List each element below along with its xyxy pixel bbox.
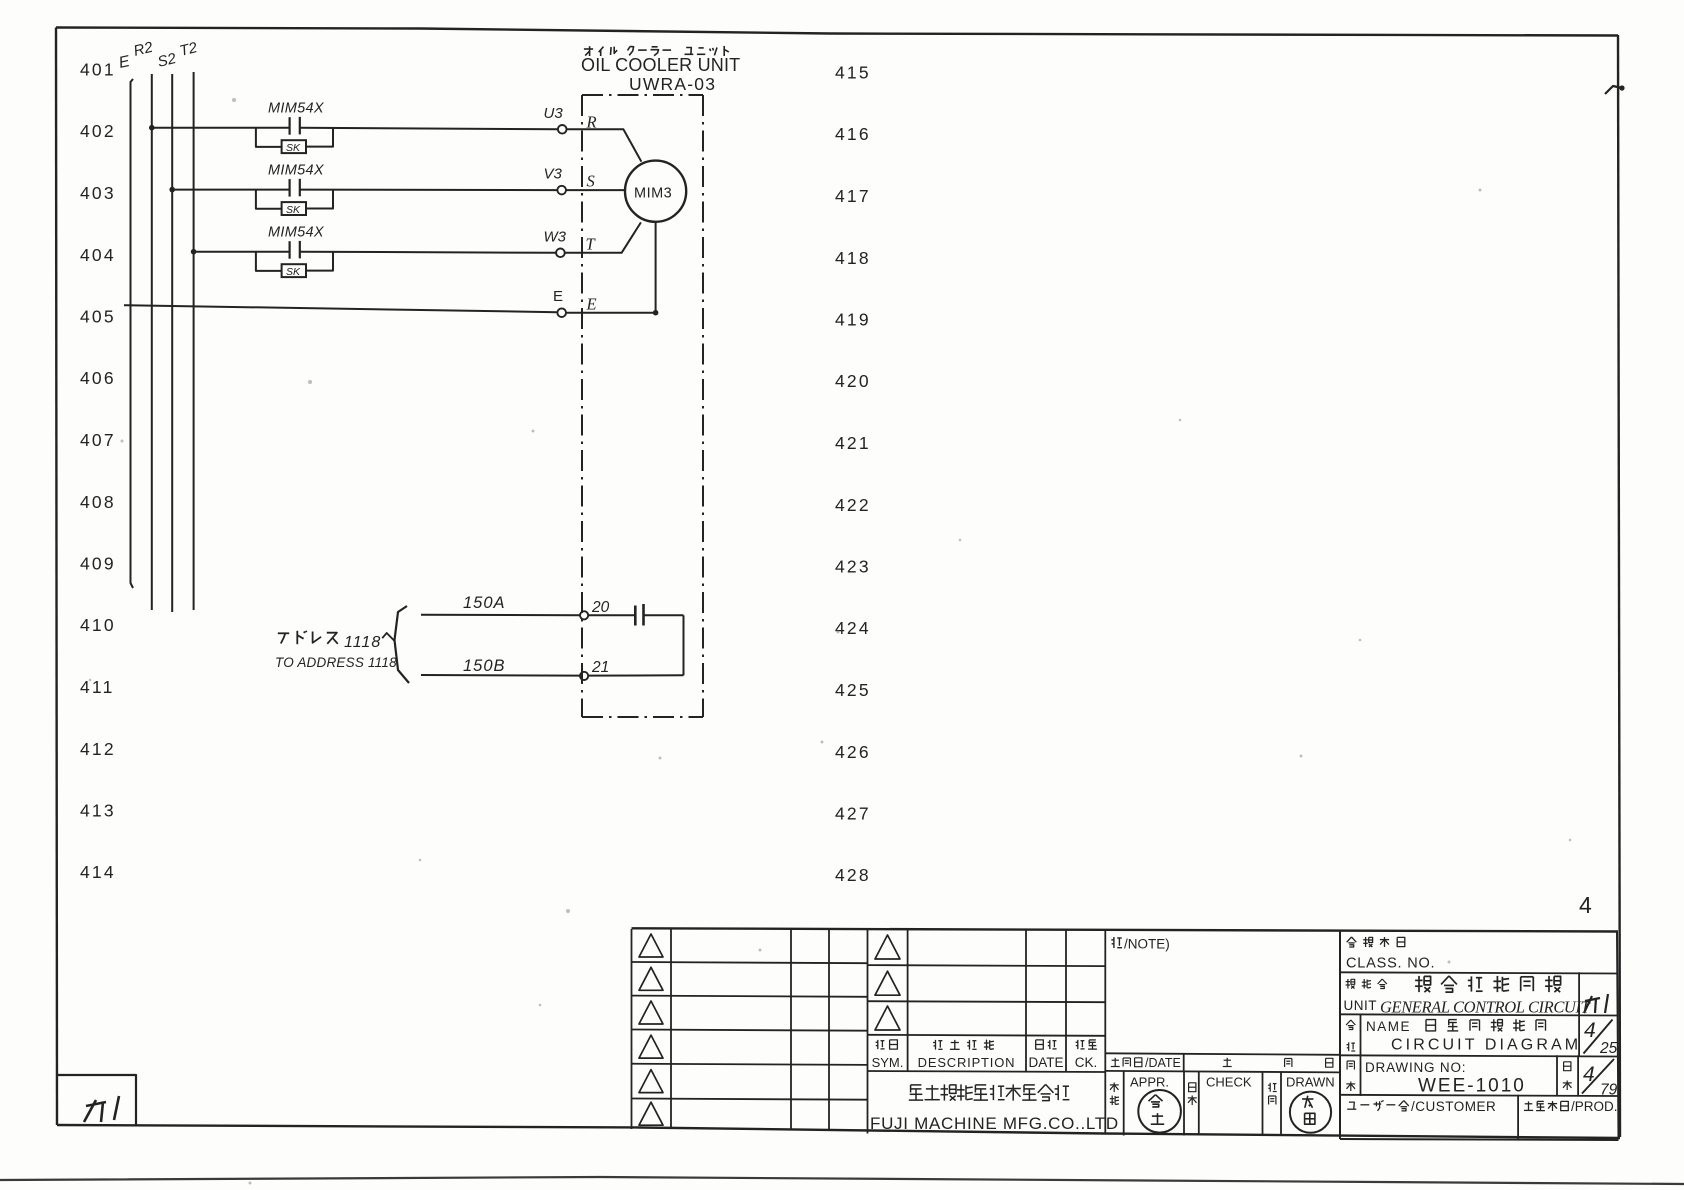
svg-text:MIM54X: MIM54X — [268, 225, 325, 241]
svg-text:U3: U3 — [544, 105, 564, 122]
svg-text:410: 410 — [80, 615, 116, 635]
caption day — [1326, 1058, 1333, 1067]
svg-text:WEE-1010: WEE-1010 — [1418, 1076, 1526, 1097]
handwritten sheet code ke-1 (bottom left) — [84, 1096, 119, 1122]
wire T to motor — [565, 222, 641, 252]
revision triangle R2 — [875, 971, 900, 995]
motor MIM3 — [625, 161, 686, 222]
svg-text:FUJI MACHINE MFG.CO..LTD: FUJI MACHINE MFG.CO..LTD — [870, 1114, 1119, 1133]
drawing sheet border — [56, 28, 1618, 36]
revision table right — [868, 929, 1106, 1134]
svg-text:25: 25 — [1599, 1040, 1618, 1057]
svg-text:CHECK: CHECK — [1206, 1075, 1252, 1090]
svg-text:S2: S2 — [156, 50, 179, 71]
svg-text:T2: T2 — [178, 39, 200, 60]
svg-text:403: 403 — [80, 183, 116, 203]
caption DATE (kanji+latin) — [1112, 1059, 1119, 1061]
caption CHECK (vertical kanji) — [1189, 1083, 1196, 1092]
svg-text:1118: 1118 — [344, 634, 381, 651]
junction bus/402 — [149, 125, 155, 131]
svg-text:UWRA-03: UWRA-03 — [629, 74, 716, 94]
svg-text:MIM3: MIM3 — [634, 186, 672, 202]
motor lead vertical wire — [655, 222, 657, 313]
caption name (kanji stacked) — [1346, 1020, 1351, 1025]
SK box line 404 — [282, 264, 306, 277]
sheet code box bottom-left — [58, 1075, 136, 1126]
capacitor plates — [635, 604, 643, 626]
wire S to motor — [566, 189, 625, 191]
svg-text:21: 21 — [591, 659, 609, 676]
svg-text:GENERAL CONTROL CIRCUIT: GENERAL CONTROL CIRCUIT — [1380, 998, 1592, 1017]
svg-text:/DATE: /DATE — [1145, 1056, 1181, 1070]
wire 402 right segment to terminal U3 — [300, 128, 558, 130]
bus T2 vertical — [193, 72, 195, 610]
caption DRAWN (vertical kanji) — [1269, 1083, 1271, 1092]
svg-text:416: 416 — [835, 124, 871, 144]
terminal V3 circle — [557, 186, 566, 195]
svg-text:150B: 150B — [463, 657, 506, 675]
SK bypass branch line 404 — [256, 252, 333, 271]
caption month — [1284, 1059, 1286, 1068]
svg-text:411: 411 — [80, 677, 115, 697]
terminal U3 circle — [558, 125, 567, 134]
svg-text:APPR.: APPR. — [1130, 1075, 1169, 1090]
caption drawing no (kanji stacked) — [1346, 1061, 1348, 1070]
stamp DRAWN (hanko) — [1290, 1092, 1331, 1133]
svg-text:415: 415 — [835, 63, 871, 83]
svg-text:408: 408 — [80, 492, 116, 512]
svg-text:CLASS. NO.: CLASS. NO. — [1346, 956, 1435, 972]
contact MIM54X on line 404 — [290, 241, 300, 259]
svg-text:20: 20 — [591, 599, 610, 616]
svg-text:428: 428 — [835, 865, 871, 885]
svg-text:E: E — [117, 53, 131, 72]
svg-text:409: 409 — [80, 554, 116, 574]
SK box line 403 — [282, 202, 306, 215]
revision triangle L6 — [639, 1102, 663, 1125]
wire capacitor to corner — [644, 614, 684, 616]
header DESCRIPTION column — [935, 1040, 937, 1050]
svg-text:419: 419 — [835, 310, 871, 330]
handwritten page fraction 4/25 — [1584, 1019, 1618, 1057]
svg-text:417: 417 — [835, 186, 871, 206]
wire R to motor — [567, 129, 642, 161]
revision triangle R3 — [875, 1006, 900, 1030]
company name Fuji Machine (kanji) — [911, 1084, 922, 1086]
svg-text:405: 405 — [80, 307, 116, 327]
svg-text:MIM54X: MIM54X — [268, 163, 325, 179]
svg-text:OIL COOLER UNIT: OIL COOLER UNIT — [581, 55, 740, 75]
date row — [1105, 1053, 1340, 1072]
caption unit name (kanji) — [1347, 979, 1349, 989]
header DATE column — [1036, 1040, 1044, 1049]
caption year — [1224, 1059, 1231, 1061]
svg-text:79: 79 — [1600, 1082, 1618, 1099]
svg-text:DRAWING NO:: DRAWING NO: — [1365, 1060, 1466, 1075]
header CK column — [1077, 1040, 1079, 1049]
svg-text:MIM54X: MIM54X — [268, 101, 325, 117]
wire 402 left segment — [152, 127, 290, 129]
svg-text:R2: R2 — [132, 39, 155, 60]
terminal 21 — [580, 672, 588, 680]
bus E vertical — [131, 79, 134, 588]
svg-text:E: E — [553, 288, 563, 305]
contact MIM54X on line 403 — [290, 179, 300, 197]
terminal W3 circle — [556, 249, 565, 258]
revision triangle R1 — [875, 935, 900, 959]
bus R2 vertical — [151, 74, 153, 610]
approval cells verticals — [1124, 1072, 1281, 1136]
SK box line 402 — [282, 140, 306, 153]
terminal E circle — [557, 308, 566, 317]
revision triangle L2 — [639, 967, 663, 990]
paper bottom edge — [0, 1177, 1684, 1184]
svg-text:401: 401 — [80, 60, 116, 80]
svg-text:DESCRIPTION: DESCRIPTION — [918, 1055, 1016, 1070]
wire 403 left segment — [172, 189, 289, 191]
svg-text:407: 407 — [80, 430, 116, 450]
right info section frame — [1340, 931, 1619, 1141]
svg-text:420: 420 — [835, 371, 871, 391]
bus S2 vertical — [171, 74, 173, 612]
svg-text:CIRCUIT DIAGRAM: CIRCUIT DIAGRAM — [1391, 1037, 1581, 1054]
junction E/motor lead — [653, 310, 659, 316]
svg-text:T: T — [586, 235, 597, 254]
svg-text:SK: SK — [286, 266, 301, 278]
svg-text:/CUSTOMER: /CUSTOMER — [1411, 1099, 1496, 1114]
svg-text:CK.: CK. — [1075, 1055, 1098, 1070]
unit caption katakana "oil cooler unit" — [584, 48, 593, 50]
svg-text:414: 414 — [80, 862, 116, 882]
svg-text:/PROD.: /PROD. — [1571, 1099, 1618, 1114]
wire 403 right segment to terminal V3 — [300, 189, 558, 192]
svg-text:425: 425 — [835, 680, 871, 700]
header SYM column — [877, 1040, 879, 1049]
note address 1118 (katakana) — [278, 632, 289, 634]
svg-text:UNIT: UNIT — [1344, 998, 1378, 1013]
svg-text:418: 418 — [835, 248, 871, 268]
svg-text:/NOTE): /NOTE) — [1124, 937, 1170, 952]
wire right vertical 20-21 — [683, 615, 685, 675]
wire 404 right segment to terminal W3 — [300, 252, 556, 253]
wire E row inside unit — [566, 312, 656, 314]
revision triangle L5 — [639, 1070, 663, 1093]
svg-text:426: 426 — [835, 742, 871, 762]
svg-text:422: 422 — [835, 495, 871, 515]
svg-text:SK: SK — [286, 142, 301, 154]
caption class no (kanji) — [1347, 937, 1352, 942]
wire 150B — [421, 674, 580, 677]
svg-text:413: 413 — [80, 801, 116, 821]
svg-text:406: 406 — [80, 368, 116, 388]
svg-text:424: 424 — [835, 618, 871, 638]
check mark at right border — [1605, 86, 1622, 94]
revision triangle L1 — [639, 934, 663, 957]
title block — [632, 928, 1619, 931]
stamp APPR (hanko) — [1138, 1090, 1181, 1133]
contact MIM54X on line 402 — [290, 117, 300, 135]
svg-text:E: E — [586, 295, 597, 314]
revision triangle L3 — [639, 1001, 663, 1024]
svg-text:TO ADDRESS 1118: TO ADDRESS 1118 — [275, 655, 397, 670]
handwritten sheet code ke-1 — [1584, 994, 1608, 1013]
revision table left — [632, 929, 868, 1129]
svg-text:S: S — [587, 172, 595, 191]
wire terminal20 to capacitor — [588, 614, 635, 616]
note cell caption — [1113, 937, 1115, 948]
junction bus/403 — [169, 187, 175, 193]
bracket to address 1118 — [395, 606, 410, 683]
handwritten page fraction 4/79 — [1582, 1059, 1618, 1099]
speckles — [232, 98, 236, 102]
svg-text:V3: V3 — [544, 166, 563, 183]
svg-text:SYM.: SYM. — [872, 1055, 904, 1070]
junction bus/404 — [191, 249, 197, 255]
svg-text:427: 427 — [835, 804, 871, 824]
svg-text:SK: SK — [286, 204, 301, 216]
SK bypass branch line 402 — [256, 128, 333, 147]
svg-text:412: 412 — [80, 739, 116, 759]
caption customer (katakana) — [1349, 1102, 1354, 1109]
svg-text:4: 4 — [1579, 892, 1592, 918]
revision triangle L4 — [639, 1035, 663, 1058]
caption APPR (vertical kanji) — [1110, 1084, 1119, 1086]
caption prod no (kanji) — [1525, 1103, 1533, 1105]
wire terminal21 to corner — [588, 674, 683, 676]
svg-text:4: 4 — [1584, 1019, 1596, 1042]
wire E row (405) left segment — [124, 305, 557, 312]
svg-text:402: 402 — [80, 121, 116, 141]
handwritten unit name kanji — [1418, 976, 1420, 992]
svg-text:404: 404 — [80, 245, 116, 265]
terminal 20 — [580, 611, 588, 619]
svg-text:DRAWN: DRAWN — [1286, 1075, 1335, 1090]
SK bypass branch line 403 — [256, 190, 333, 209]
svg-text:W3: W3 — [544, 228, 567, 245]
wire 404 left segment — [194, 251, 290, 253]
caption circuit diagram (kanji) — [1426, 1020, 1436, 1031]
svg-text:NAME: NAME — [1366, 1019, 1411, 1034]
caption page no (kanji stacked) — [1564, 1062, 1571, 1071]
svg-text:423: 423 — [835, 557, 871, 577]
wire 150A — [421, 614, 580, 616]
svg-text:DATE: DATE — [1028, 1055, 1063, 1070]
oil cooler unit boundary box (dash-dot) — [582, 95, 703, 717]
svg-text:150A: 150A — [463, 594, 506, 612]
svg-text:421: 421 — [835, 433, 871, 453]
